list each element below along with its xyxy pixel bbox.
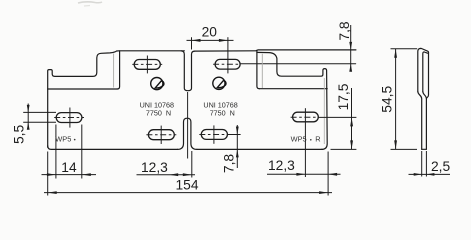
slot centerline dashes upper-left [132, 63, 162, 65]
bracket front-view outline (left portion: left edge, top-left tab, ledge, step) [48, 51, 120, 147]
svg-text:154: 154 [176, 178, 199, 193]
dim 7,8 top: extension lower y=63.8 shared with flange line; dimension line [350, 25, 352, 71]
side view outer-left face with hem top and jog to lower face [418, 48, 429, 91]
svg-text:7750 N: 7750 N [210, 109, 235, 118]
arrow 12,3L left (inside, pointing left) [169, 173, 178, 176]
arrow 2,5 left (outside, pointing right) [414, 173, 422, 176]
arrow 54,5 bottom (inside, pointing down) [394, 140, 397, 149]
svg-text:WP5: WP5 [291, 135, 307, 144]
arrow 7,8 top upper (outside, pointing down) [349, 42, 352, 50]
slot mid-right [201, 130, 227, 140]
slot centerline dashes mid-left [146, 134, 176, 136]
arrow 154 left (inside, pointing left) [48, 191, 57, 194]
svg-text:17,5: 17,5 [336, 83, 351, 110]
dim 2,5: extensions (side-view sheet faces extended down) [421, 151, 423, 177]
dim 7,8 bottom: dimension line vertical [236, 125, 238, 168]
dim 14: extensions from lower-left slot ends [55, 125, 57, 179]
svg-text:20: 20 [202, 25, 218, 40]
svg-text:7,8: 7,8 [337, 21, 352, 41]
arrow 54,5 top (inside, pointing up) [394, 49, 397, 58]
svg-text:7,8: 7,8 [222, 154, 237, 174]
faint inner edge line left (x=113.6) [113, 54, 115, 88]
side view bottom cap [422, 148, 427, 150]
svg-text:12,3: 12,3 [268, 158, 295, 173]
dim 12,3 right: dimension line [267, 173, 341, 175]
top notch (center) [181, 51, 194, 91]
arrow 17,5 bottom (inside, pointing down) [350, 140, 353, 149]
dim 17,5: extension from lower-right slot center [318, 116, 356, 118]
dim 54,5: top extension [391, 48, 418, 50]
slot centerline dashes lower-left [54, 117, 84, 119]
arrow 12,3R right (outside, pointing left) [328, 173, 337, 176]
slot centerline dashes upper-right [213, 63, 240, 65]
svg-text:2,5: 2,5 [431, 159, 451, 174]
bottom notch with flared entry and rounded dome top [178, 118, 197, 149]
dim 20: right extension (upper-right slot vertical centerline) [227, 37, 229, 73]
slot upper-right [215, 59, 240, 69]
slot lower-left [56, 113, 82, 123]
arrow 2,5 right (outside, pointing left) [426, 173, 434, 176]
left bend line [48, 88, 117, 90]
dim 20: dimension line [187, 39, 234, 41]
dim 5,5: extensions from lower-left slot top/bottom [23, 111, 56, 113]
flange inner vertical T-hanger left (x=120.2) with fillet into left bend line [117, 51, 120, 89]
weld symbol left (circle with leaf) [151, 78, 164, 90]
faint inner edge line near right edge (x=324.3) [323, 78, 325, 144]
svg-text:5,5: 5,5 [11, 124, 26, 144]
shared right extension (right edge extended down, for 12,3R and 154) [327, 152, 329, 196]
slot vertical centerline mid-right [213, 125, 215, 143]
arrow 20 right (inside, pointing right) [219, 39, 228, 42]
arrow 5,5 upper (outside, pointing down) [27, 105, 30, 113]
dim 20: left extension (top notch right side extended up) [191, 37, 193, 49]
dim 154: dimension line [44, 192, 332, 194]
arrow 7,8 bottom upper (outside, pointing down) [236, 127, 239, 135]
weld symbol right (circle with leaf) [213, 77, 226, 89]
slot lower-right [293, 112, 319, 122]
dim 54,5: bottom extension [391, 148, 418, 150]
faint scan smudges [78, 2, 102, 3]
svg-text:14: 14 [61, 160, 77, 175]
dim 5,5: dimension line [27, 104, 29, 129]
svg-text:54,5: 54,5 [379, 86, 394, 113]
arrow 12,3R left (outside, pointing right) [296, 173, 305, 176]
slot centerline dashes lower-right [291, 116, 319, 118]
right S-profile: from vertical, ledge and right tab, right edge down [257, 52, 327, 149]
dim 154: left extension (left edge extended down) [47, 152, 49, 196]
bottom notch centerline (from top notch down through dome) [187, 92, 189, 159]
bottom edge right segment [197, 148, 322, 150]
slot vertical centerline mid-left [160, 126, 162, 144]
arrow 14 right (outside, pointing left) [82, 173, 91, 176]
svg-text:R: R [315, 135, 320, 144]
svg-text:WP5: WP5 [55, 134, 71, 143]
slot mid-left [148, 130, 174, 140]
side view inner face line with jog [423, 52, 428, 91]
svg-text:12,3: 12,3 [141, 160, 168, 175]
dim 12,3 left: right extension (notch side extended) [191, 151, 193, 178]
top edge left segment (between left step and notch) [120, 50, 185, 52]
top edge right segment with slight step, extends right as 7.8 extension [195, 50, 356, 51]
dim 17,5: bottom extension (bottom edge extended) [331, 148, 357, 150]
dim 14: dimension line [42, 174, 97, 176]
side view hem back line (ends at jog) [427, 52, 429, 98]
dim 2,5: dimension line [409, 173, 451, 175]
flange bottom edge line (y=63.8) from upper-right slot to 7.8 extension [240, 63, 356, 65]
arrow 154 right (inside, pointing right) [319, 191, 328, 194]
arrow 7,8 bottom lower (outside, pointing up) [236, 149, 239, 157]
right bend line [259, 88, 327, 90]
dim 12,3 right: left extension (lower-right slot centerline down) [304, 108, 306, 177]
flange inner vertical right (x=256.9) with fillet into right bend line [257, 50, 260, 88]
dim 17,5: dimension line with tail up [351, 88, 353, 149]
side view profile [418, 48, 429, 149]
slot centerline dashes mid-right [199, 134, 227, 136]
dim 54,5: dimension line [395, 49, 397, 150]
faint inner edge line right of center vertical (x=262.3) [261, 54, 263, 88]
slot vertical centerline upper-left [146, 56, 148, 74]
dim 12,3 left: dimension line [137, 174, 196, 176]
arrow 20 left (inside, pointing left) [192, 39, 201, 42]
arrow 7,8 top lower (outside, pointing up) [349, 64, 352, 72]
arrow 12,3L right (inside, pointing right) [183, 173, 192, 176]
arrow 17,5 top (inside, pointing up) [350, 117, 353, 126]
slot vertical centerline lower-left [69, 108, 71, 128]
slot upper-left [134, 60, 160, 70]
svg-text:7750 N: 7750 N [146, 109, 171, 118]
dim 7,8 bottom: extension from mid-right slot center [227, 134, 240, 136]
arrow 14 left (outside, pointing right) [47, 173, 56, 176]
arrow 5,5 lower (outside, pointing up) [27, 122, 30, 130]
bottom edge left segment with bottom-left corner fillet [48, 146, 178, 150]
